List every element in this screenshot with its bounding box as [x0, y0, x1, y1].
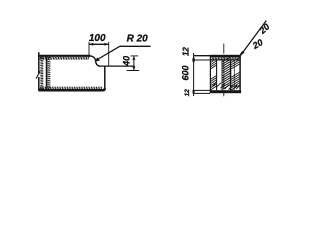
- leader for 20/20: [241, 21, 267, 56]
- top ext tick: [131, 55, 139, 57]
- top flange inner line: [210, 59, 240, 61]
- web right border: [230, 60, 232, 90]
- arrow left: [89, 43, 93, 46]
- right band hatch (sparse): [231, 58, 239, 90]
- R20 leader shelf: [120, 45, 151, 47]
- right view dimensions: common dim line: [193, 53, 195, 96]
- dim line: [133, 56, 135, 71]
- ext line right: [108, 42, 110, 66]
- bottom flange hatch ticks: [213, 83, 240, 90]
- R20 leader arrowhead: [94, 57, 100, 61]
- svg-text:600: 600: [181, 65, 191, 80]
- left view: shading ticks right of left edge: [40, 57, 43, 89]
- svg-text:R 20: R 20: [127, 34, 149, 45]
- dimension 40: [127, 56, 140, 71]
- lower step surface line extended to 40-dim: [99, 65, 135, 67]
- R20 step S-curve at top right: [90, 56, 100, 66]
- left edge upper (with overshoot above corner): [38, 52, 40, 73]
- top edge: [38, 55, 90, 57]
- left edge lower: [38, 77, 40, 91]
- left outer edge: [209, 55, 211, 93]
- dim line: [89, 43, 109, 45]
- left view: shading ticks right of weld seam: [48, 57, 51, 88]
- right end edge: [104, 66, 106, 89]
- ext line: top edge extended: [194, 55, 210, 57]
- svg-text:100: 100: [89, 33, 106, 44]
- left view: plate outline: [36, 52, 135, 90]
- ext line left: [88, 42, 90, 58]
- dimension 100: [89, 42, 109, 66]
- left view: shading ticks under top edge: [40, 57, 89, 60]
- web hatch: [222, 57, 230, 90]
- bottom edge: [38, 88, 104, 90]
- svg-text:12: 12: [182, 47, 191, 56]
- vertical centerline: [223, 44, 225, 97]
- leader arrowhead: [240, 51, 245, 56]
- right outer edge: [239, 55, 241, 93]
- ext line: bottom underside extended: [194, 92, 210, 94]
- svg-text:40: 40: [121, 56, 131, 67]
- left wall hatch (sparse): [211, 59, 217, 90]
- ext line: flange underside extended: [194, 59, 210, 61]
- break zigzag on left edge: [36, 71, 40, 78]
- left wall inner line: [216, 60, 218, 90]
- arrow up: [132, 56, 135, 60]
- R20 leader diagonal: [96, 46, 120, 60]
- svg-text:12: 12: [184, 89, 191, 97]
- ext line: bottom edge extended: [194, 89, 210, 91]
- arrow down: [132, 67, 135, 71]
- left view: shading ticks above bottom edge: [40, 87, 102, 90]
- bottom ext line: [127, 70, 140, 72]
- top flange hatch ticks: [210, 57, 238, 60]
- arrows on dim line: [192, 56, 195, 60]
- bottom flange band: [210, 90, 241, 93]
- web left border: [221, 60, 223, 90]
- top flange band: [210, 55, 241, 57]
- extra inner line right of web: [233, 61, 235, 90]
- weld seam line: [46, 55, 48, 90]
- arrow right: [105, 43, 109, 46]
